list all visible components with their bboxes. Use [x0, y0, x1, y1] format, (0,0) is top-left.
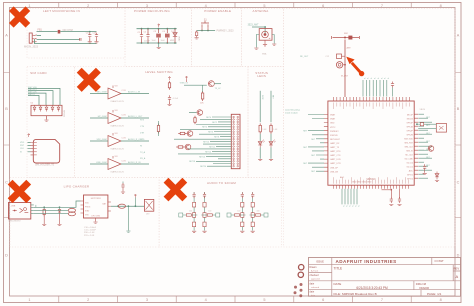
Q3 resistor R5: [194, 116, 196, 125]
svg-text:C10 = 100nF: C10 = 100nF: [84, 227, 97, 229]
vio capacitor C5: [168, 95, 171, 101]
decoupling top rail: [137, 28, 177, 30]
buffer U5: [108, 136, 121, 147]
svg-text:M_ANT: M_ANT: [341, 75, 349, 78]
svg-text:inside module: inside module: [285, 113, 299, 115]
svg-text:1.0K: 1.0K: [273, 129, 278, 131]
audio group right grounds: [240, 231, 244, 232]
svg-text:SPK2P: SPK2P: [407, 130, 414, 132]
svg-text:VBUS: VBUS: [420, 109, 426, 111]
buffer U4 input wire: [90, 117, 108, 119]
status resistor R9: [270, 91, 272, 122]
deleted mark X over audio block: [166, 180, 185, 199]
svg-text:6: 6: [322, 4, 324, 8]
module bottom wires: [342, 189, 357, 205]
svg-text:SPK2N: SPK2N: [406, 134, 413, 136]
svg-text:PWR: PWR: [261, 95, 263, 100]
svg-text:MCP73831: MCP73831: [91, 198, 102, 200]
svg-text:6/21/2015 3:20:43 PM: 6/21/2015 3:20:43 PM: [356, 286, 388, 290]
decor dots: [300, 283, 303, 286]
vio resistor R2: [169, 77, 171, 81]
svg-text:B: B: [5, 107, 8, 111]
block outline POWER ENABLE: [191, 9, 241, 67]
svg-text:CTS: CTS: [140, 126, 145, 128]
ground under C18: [94, 42, 98, 43]
wire mic low: [37, 38, 80, 40]
svg-text:USB_MICRO: USB_MICRO: [8, 221, 21, 223]
svg-text:UART_CTS: UART_CTS: [330, 154, 341, 157]
svg-text:100: 100: [189, 211, 192, 213]
pushbutton S1: [201, 21, 209, 28]
svg-text:SMA: SMA: [262, 53, 267, 56]
svg-text:VIO: VIO: [115, 110, 119, 112]
svg-text:100: 100: [237, 211, 240, 213]
svg-text:DATE: DATE: [334, 282, 342, 286]
right transistor Q6: [428, 146, 434, 152]
svg-text:LIPO CHARGER: LIPO CHARGER: [64, 184, 90, 188]
svg-text:POWER DECOUPLING: POWER DECOUPLING: [134, 9, 170, 13]
svg-text:C18: C18: [93, 32, 96, 34]
capacitor C17: [88, 33, 91, 39]
svg-text:NETLIGHT: NETLIGHT: [330, 139, 341, 141]
cap C19 series: [80, 38, 81, 41]
battery gnd drop: [127, 206, 129, 230]
decoupling bottom rail: [137, 42, 177, 44]
svg-text:SD_CMD: SD_CMD: [405, 158, 414, 160]
svg-text:SD_D1: SD_D1: [407, 166, 414, 168]
module IC top pin labels: [334, 103, 410, 110]
ferrite FB3 oval: [68, 208, 75, 212]
mount ring 1: [299, 265, 304, 270]
svg-text:AUDIO_L_OUT: AUDIO_L_OUT: [128, 115, 143, 118]
diode D4 right: [435, 172, 439, 180]
vcc arrow battery: [134, 194, 136, 198]
svg-text:UART_DTR: UART_DTR: [330, 162, 341, 165]
status resistor R8: [259, 91, 261, 122]
svg-text:SPK1N: SPK1N: [406, 126, 413, 128]
svg-text:UART_DCD: UART_DCD: [330, 158, 341, 161]
block outline STATUS LEDS: [248, 67, 284, 178]
module IC left pins: [324, 115, 328, 172]
svg-text:TX_A: TX_A: [140, 151, 146, 154]
wire PWRKEY: [197, 30, 216, 32]
audio group left grounds: [192, 231, 196, 232]
svg-text:ADAFRUIT INDUSTRIES: ADAFRUIT INDUSTRIES: [336, 259, 397, 264]
usb shield gnd: [35, 205, 37, 207]
pullup resistor R12: [158, 124, 160, 134]
audio jack J1: [29, 33, 32, 43]
frame column ticks top and bottom: [59, 3, 411, 303]
ground antenna 1: [254, 48, 258, 49]
svg-text:weak 60k pullup: weak 60k pullup: [285, 110, 301, 112]
svg-text:5: 5: [263, 298, 265, 302]
svg-text:1: 1: [28, 298, 30, 302]
level shift transistor Q3: [197, 110, 203, 116]
svg-text:MICIN_3523: MICIN_3523: [24, 45, 39, 48]
svg-text:PWRKEY: PWRKEY: [330, 131, 339, 133]
svg-text:SIM CARD: SIM CARD: [30, 71, 47, 75]
title block outer box: [309, 258, 461, 297]
svg-text:PAGE: 1/1: PAGE: 1/1: [427, 292, 442, 296]
VCC symbol power rail: [158, 24, 160, 28]
RF test connector X4: [336, 62, 342, 68]
svg-text:A: A: [457, 34, 460, 38]
svg-text:C: C: [5, 180, 8, 184]
svg-text:NET0: NET0: [206, 117, 211, 119]
svg-text:C.5V: C.5V: [122, 137, 127, 139]
module top green wires: [363, 80, 387, 97]
audio ladder group left R12-R17: [193, 197, 195, 231]
svg-text:C11 = 100nF: C11 = 100nF: [84, 230, 97, 232]
svg-text:PROG: PROG: [85, 207, 91, 209]
svg-text:MIC1P: MIC1P: [407, 114, 414, 116]
svg-text:RTS: RTS: [140, 120, 145, 122]
svg-text:5: 5: [263, 4, 265, 8]
ferrite FB4 oval: [68, 212, 75, 216]
svg-text:USB_DN: USB_DN: [330, 171, 339, 173]
resistor R1 pulldown: [196, 31, 198, 33]
ground status 2: [269, 159, 273, 160]
status LED D3: [269, 142, 273, 148]
wire mic top: [37, 31, 58, 33]
svg-text:LINE_GSM: LINE_GSM: [96, 162, 107, 164]
svg-text:NET6: NET6: [208, 132, 213, 134]
antenna connector X2: [259, 29, 272, 41]
svg-text:AUDIO TO 32OHM: AUDIO TO 32OHM: [207, 181, 236, 185]
buffer U4: [108, 113, 121, 124]
svg-text:C.5V: C.5V: [122, 114, 127, 116]
module IC right pins: [414, 114, 418, 178]
svg-text:FILE: SIM5320 Breakout Rev B: FILE: SIM5320 Breakout Rev B: [334, 292, 377, 296]
block outline SIM CARD: [27, 67, 75, 178]
wire to antenna connector: [252, 26, 265, 28]
sim esd wires: [28, 88, 60, 105]
sheet cell: [431, 258, 433, 265]
svg-text:6: 6: [322, 298, 324, 302]
svg-text:ISSUE: ISSUE: [316, 259, 324, 263]
title block horizontal dividers: [309, 265, 461, 290]
svg-text:74AHC1G125: 74AHC1G125: [110, 170, 124, 173]
svg-text:VBAT: VBAT: [178, 36, 181, 42]
svg-text:2: 2: [87, 298, 89, 302]
svg-text:NET2: NET2: [212, 122, 217, 124]
svg-text:SIM_HOLDER_TE: SIM_HOLDER_TE: [35, 165, 55, 167]
module right wires: [419, 114, 433, 178]
mount ring 2: [298, 272, 303, 277]
svg-text:100nF: 100nF: [144, 41, 150, 43]
status LED D2: [258, 142, 262, 148]
battery connector JP2: [144, 199, 153, 211]
header JP1 pin circles: [233, 116, 235, 118]
svg-text:SIM_IO: SIM_IO: [406, 150, 413, 152]
svg-text:3: 3: [146, 4, 148, 8]
ground status 1: [258, 159, 262, 160]
svg-text:4: 4: [205, 298, 207, 302]
svg-text:1: 1: [28, 4, 30, 8]
svg-text:2: 2: [87, 4, 89, 8]
inductor L1 oval: [118, 204, 125, 208]
capacitor C15 bottom: [390, 189, 392, 198]
svg-text:ADC: ADC: [409, 169, 414, 172]
buffer U6 input wire: [90, 163, 108, 165]
capacitor C2: [147, 29, 149, 34]
usb pin stubs: [31, 205, 34, 214]
capacitor C16 bottom: [399, 189, 401, 198]
buffer U3: [108, 88, 121, 99]
charger ground: [95, 218, 97, 222]
level shift transistor Q4: [187, 131, 193, 137]
svg-text:GPIO2: GPIO2: [407, 178, 414, 180]
deleted mark X over level shifting: [79, 70, 98, 89]
svg-text:SIM_CLK: SIM_CLK: [404, 146, 413, 148]
svg-text:DTR: DTR: [140, 133, 145, 135]
svg-text:C.5V: C.5V: [122, 90, 127, 92]
polarized capacitor C4: [166, 29, 168, 33]
sim holder net stubs: [28, 143, 31, 152]
deleted mark X over lipo charger: [10, 182, 29, 201]
block outline ANTENNA: [241, 9, 283, 67]
svg-text:FB1: FB1: [38, 29, 43, 32]
svg-text:VIO: VIO: [115, 156, 119, 158]
annotation arrow to RF connector: [359, 71, 364, 76]
sim holder pins: [31, 143, 34, 155]
svg-text:NET4: NET4: [202, 127, 207, 129]
status LED wire 2: [270, 148, 272, 159]
module IC top pins: [334, 97, 410, 101]
svg-text:SPK_GSM: SPK_GSM: [96, 139, 106, 141]
antenna side wires: [256, 35, 274, 48]
block outline LEVEL SHIFTING: [75, 67, 248, 178]
level shift transistor Q5: [185, 144, 191, 150]
LED D3 charge: [59, 207, 61, 209]
svg-text:R11 = 2.0K: R11 = 2.0K: [84, 235, 95, 237]
svg-text:UART_RX: UART_RX: [330, 142, 340, 145]
usb detect box X5: [436, 124, 446, 133]
svg-text:UART_TX: UART_TX: [330, 146, 340, 149]
usb vbus wire: [34, 201, 81, 207]
svg-text:Drawn: Drawn: [310, 266, 318, 269]
status wire 1: [259, 134, 261, 141]
Q4 resistor R6: [178, 133, 187, 135]
level shift resistor R4: [202, 91, 204, 101]
svg-text:HP_GSM: HP_GSM: [98, 116, 107, 118]
svg-text:ANT: ANT: [347, 47, 352, 50]
deleted mark X over microphone block: [11, 9, 28, 26]
svg-text:74AHC1G125: 74AHC1G125: [110, 100, 124, 103]
svg-text:USB: USB: [11, 205, 16, 207]
capacitor C13 top: [391, 82, 394, 88]
svg-text:VDD: VDD: [20, 142, 25, 144]
svg-text:1.0K: 1.0K: [262, 129, 267, 131]
svg-text:REV: REV: [454, 266, 460, 270]
antenna center pin: [264, 40, 266, 44]
svg-text:GSM_TX: GSM_TX: [180, 82, 189, 84]
wire after bead: [60, 31, 96, 33]
header JP1 body: [231, 114, 240, 168]
svg-text:MIC1N: MIC1N: [407, 118, 414, 120]
capacitor C14 right: [423, 164, 426, 170]
buffer U3 input wire: [90, 93, 108, 95]
polarized capacitor C3: [158, 29, 160, 33]
svg-text:8: 8: [440, 4, 442, 8]
header wires bundle: [174, 117, 231, 166]
ground under ESD array: [46, 116, 48, 120]
svg-text:LEVEL SHIFTING: LEVEL SHIFTING: [145, 70, 173, 74]
svg-text:D: D: [5, 254, 8, 258]
svg-text:VBAT: VBAT: [330, 118, 336, 121]
svg-text:74AHC1G125: 74AHC1G125: [110, 124, 124, 127]
SIM card holder CN1: [33, 139, 59, 163]
svg-text:RX_A: RX_A: [140, 157, 146, 160]
svg-text:DRG N#: DRG N#: [416, 282, 427, 286]
svg-text:C17: C17: [86, 32, 89, 34]
svg-text:DCD: DCD: [140, 139, 145, 141]
svg-text:NET16: NET16: [199, 156, 205, 158]
svg-text:SIM_RST: SIM_RST: [404, 142, 413, 144]
capacitor C1: [141, 29, 143, 34]
svg-text:3: 3: [146, 298, 148, 302]
svg-text:CLK: CLK: [20, 148, 25, 150]
svg-text:approved: approved: [311, 278, 321, 281]
usb data wires to ferrites: [34, 210, 69, 213]
wire mic mid: [37, 35, 42, 37]
svg-text:GND GND GND GND: GND GND GND GND: [352, 182, 372, 184]
svg-text:POWER ENABLE: POWER ENABLE: [204, 9, 231, 13]
svg-text:A-Track: A-Track: [311, 269, 319, 272]
svg-text:checked: checked: [310, 274, 320, 277]
svg-text:VIO: VIO: [115, 133, 119, 135]
audio ladder group right R18-R23: [241, 197, 243, 231]
module left wires: [308, 115, 324, 172]
svg-text:NET20: NET20: [200, 166, 206, 168]
svg-text:NET10: NET10: [203, 142, 209, 144]
ground power rail: [158, 43, 160, 47]
ferrite bead FB2: [348, 36, 352, 40]
svg-text:SIM_IO: SIM_IO: [28, 94, 35, 96]
resistor R10 led: [43, 208, 45, 217]
svg-text:STATUS: STATUS: [330, 134, 338, 137]
svg-text:A: A: [5, 34, 8, 38]
svg-text:VBAT: VBAT: [330, 114, 336, 117]
svg-text:4: 4: [205, 4, 207, 8]
antenna vertical trace: [344, 40, 346, 98]
svg-text:B: B: [457, 107, 460, 111]
svg-text:ADC: ADC: [340, 176, 345, 179]
X5 link wires: [418, 123, 420, 125]
frame row ticks left and right: [4, 73, 462, 218]
ground antenna 3: [272, 44, 276, 45]
module IC bottom pins: [334, 185, 409, 189]
sim vcc symbol: [28, 134, 30, 138]
level shift transistor Q1: [208, 81, 214, 87]
svg-text:SD_D0: SD_D0: [407, 162, 414, 164]
svg-text:RF_OUT: RF_OUT: [300, 56, 309, 58]
svg-text:C: C: [457, 180, 460, 184]
USB connector X3: [9, 203, 31, 220]
Q5 resistor R7: [176, 146, 185, 148]
antenna feed trace: [333, 37, 360, 39]
svg-text:O N%T: O N%T: [435, 259, 444, 263]
svg-text:date: date: [310, 282, 315, 285]
block outline POWER DECOUPLING: [125, 9, 191, 67]
module IC bottom pin labels: [334, 177, 409, 184]
charger output wire: [111, 205, 144, 207]
svg-text:XDA006: XDA006: [419, 286, 430, 290]
block outline LIPO CHARGER: [10, 178, 159, 248]
svg-text:AUDIO_L_IN: AUDIO_L_IN: [128, 90, 141, 93]
svg-text:LEDS: LEDS: [257, 74, 266, 78]
svg-text:MIC_GSM: MIC_GSM: [97, 91, 107, 93]
svg-text:LEFT MICROPHONE IN: LEFT MICROPHONE IN: [43, 9, 80, 13]
wire mic return bottom: [35, 39, 97, 43]
svg-text:SIM_VDD: SIM_VDD: [404, 138, 413, 140]
svg-text:3523_ANT: 3523_ANT: [248, 24, 260, 27]
Q1 base resistor R3: [184, 84, 207, 86]
buffer U5 input wire: [90, 140, 108, 142]
svg-text:7: 7: [381, 298, 383, 302]
svg-text:100: 100: [208, 211, 211, 213]
buffer U5 output wire: [121, 140, 149, 142]
rail junctions: [141, 28, 143, 30]
series capacitor C12: [337, 54, 342, 59]
ground antenna 2: [263, 45, 267, 46]
svg-text:UART_RTS: UART_RTS: [330, 150, 341, 153]
ESD diode array U2: [31, 105, 62, 115]
module IC U1 body: [328, 101, 414, 185]
svg-text:NET14: NET14: [205, 151, 211, 153]
buffer U6: [108, 159, 121, 170]
svg-text:R10 = 1.0K: R10 = 1.0K: [84, 232, 95, 234]
block outline MODULE area: [284, 9, 456, 248]
svg-text:TITLE: TITLE: [334, 267, 343, 271]
status wire 2: [270, 134, 272, 141]
buffer U6 output wire: [121, 163, 149, 165]
svg-text:LIPO CHG: LIPO CHG: [91, 216, 100, 218]
buffer U3 output wire: [121, 93, 149, 95]
svg-text:PWRKEY_3523: PWRKEY_3523: [217, 30, 235, 33]
svg-text:AUDIO_R_IN: AUDIO_R_IN: [128, 161, 141, 164]
capacitor C18: [95, 33, 98, 39]
svg-text:C.5V: C.5V: [122, 160, 127, 162]
diode D1: [174, 29, 176, 33]
ground under S1: [195, 38, 199, 39]
svg-text:MBR: MBR: [170, 40, 175, 42]
charger IC U7: [84, 195, 108, 218]
svg-text:NET18: NET18: [189, 161, 195, 163]
ferrite bead FB1: [58, 30, 61, 34]
svg-text:USB_DP: USB_DP: [330, 167, 339, 169]
series resistor R9: [420, 123, 423, 126]
svg-text:4.7uF: 4.7uF: [173, 98, 179, 100]
svg-text:7: 7: [381, 4, 383, 8]
capacitor C11 vbus: [122, 182, 124, 184]
block outline LEFT MICROPHONE IN: [27, 9, 125, 59]
svg-text:8: 8: [440, 298, 442, 302]
svg-text:date: date: [310, 291, 315, 294]
rev cell: [453, 265, 460, 281]
svg-text:A: A: [455, 274, 458, 279]
svg-text:GPIO1: GPIO1: [407, 174, 414, 176]
level shift misc vcc: [186, 76, 188, 80]
svg-text:100: 100: [257, 211, 260, 213]
title block left column: [309, 258, 332, 297]
svg-text:SPK1P: SPK1P: [407, 122, 414, 124]
buffer U4 output wire: [121, 117, 149, 119]
svg-text:VRTC: VRTC: [330, 127, 336, 129]
svg-text:ANTENNA: ANTENNA: [252, 9, 268, 13]
bottom red link wire: [382, 189, 392, 191]
ground under C17: [88, 42, 92, 43]
